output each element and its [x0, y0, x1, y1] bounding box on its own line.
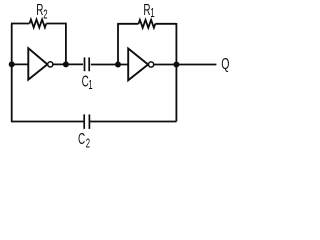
- wire R2 top left segment: [11, 23, 30, 25]
- svg-text:2: 2: [43, 9, 47, 22]
- wire R1 top right segment: [155, 23, 176, 25]
- resistor R1: [139, 20, 156, 28]
- op-amp U1 inverter triangle: [28, 48, 47, 79]
- wire U2 output to Q: [154, 64, 217, 66]
- svg-text:1: 1: [150, 8, 154, 21]
- wire R1 right leg down to bottom rail: [175, 23, 177, 122]
- capacitor C1 left plate: [84, 57, 86, 71]
- capacitor C1 right plate: [88, 57, 90, 71]
- wire R2 right leg: [65, 23, 67, 65]
- capacitor C2 left plate: [83, 114, 85, 128]
- node U1 output junction: [63, 61, 69, 67]
- label C2: [78, 130, 90, 151]
- op-amp U2 inversion bubble: [149, 62, 154, 67]
- svg-text:R: R: [143, 0, 150, 18]
- label R1: [143, 0, 154, 20]
- svg-text:R: R: [36, 1, 43, 19]
- label output Q: [221, 55, 229, 73]
- wire inverter U1 input: [12, 63, 29, 65]
- node U2 output junction: [173, 62, 179, 68]
- capacitor C2 right plate: [88, 114, 90, 128]
- op-amp U2 inverter triangle: [128, 49, 148, 81]
- wire left vertical rail: [11, 24, 13, 122]
- node U1 input junction: [9, 61, 15, 67]
- svg-text:C: C: [78, 130, 85, 148]
- wire R1 left leg: [117, 24, 119, 65]
- svg-text:1: 1: [88, 79, 92, 92]
- wire R1 top left segment: [117, 23, 138, 25]
- wire bottom rail right segment: [89, 121, 176, 123]
- wire bottom rail left segment: [11, 121, 84, 123]
- svg-text:2: 2: [86, 138, 90, 151]
- label C1: [82, 72, 93, 92]
- wire U1 output to C1: [53, 63, 83, 65]
- label R2: [36, 1, 47, 22]
- wire C1 to U2 input: [91, 64, 128, 66]
- node U2 input junction: [115, 62, 121, 68]
- op-amp U1 inversion bubble: [48, 62, 53, 67]
- resistor R2: [30, 20, 47, 28]
- wire R2 top right segment: [46, 23, 66, 25]
- svg-text:Q: Q: [221, 55, 229, 73]
